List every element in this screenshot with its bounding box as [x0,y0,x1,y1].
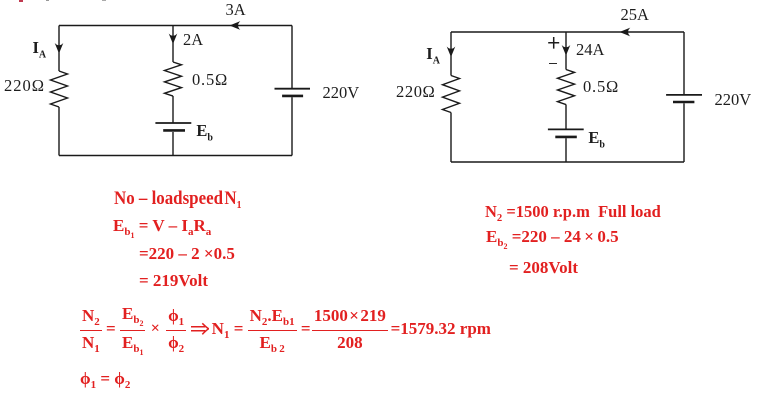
red text: Eb1 = V - IaRa [113,217,211,236]
fraction phi1/phi2 [166,307,186,351]
label 2A left circuit [183,32,203,49]
red text: No-load speed N1 [114,189,242,208]
resistor 220ohm left circuit [51,71,68,107]
wire: left circuit right branch upper [291,26,293,89]
wire: left circuit right branch lower [291,97,293,155]
arrow: IA current right circuit left branch [447,47,456,58]
arrow: 24A current right circuit middle branch [562,45,571,56]
wire: right circuit top [451,31,684,33]
wire: left circuit middle branch to battery [172,96,174,123]
label 3A [226,2,246,19]
red text: = 219 Volt [139,272,208,289]
label Eb right circuit [588,130,605,147]
wire: left circuit left branch upper [58,26,60,72]
wire: left circuit middle branch upper [172,26,174,63]
wire: right circuit middle branch below battery [565,138,567,162]
label 220ohm right circuit [396,84,435,101]
resistor 0.5ohm right circuit [558,70,575,105]
times [151,321,160,337]
label IA left circuit [33,40,47,57]
battery Eb right circuit: long plate [548,128,584,130]
wire: left circuit left branch lower [58,107,60,156]
red equation: speed ratio formula [80,305,491,353]
label 0.5ohm left circuit [192,72,228,89]
fraction Eb2/Eb1 [120,305,145,353]
fraction N2.Eb1/Eb2 [248,307,297,351]
resistor 0.5ohm left circuit [165,62,182,96]
label Eb left circuit [196,123,213,140]
arrow: 25A current right circuit top wire [620,28,631,37]
battery 220V right circuit: short thick plate [673,101,694,104]
N1 = [212,320,244,337]
wire: left circuit middle branch below battery [172,132,174,156]
battery Eb right circuit: short thick plate [555,136,577,139]
label minus sign right circuit [549,63,558,65]
resistor 220ohm right circuit [443,76,460,113]
battery 220V right circuit: long plate [666,94,702,96]
wire: left circuit bottom [59,155,292,157]
battery Eb left circuit: long plate [155,122,191,124]
label IA right circuit [426,46,440,63]
label 25A [621,7,649,24]
wire: right circuit left branch upper [450,32,452,76]
wire: right circuit middle branch upper [565,32,567,70]
label 220V right circuit [715,92,752,109]
wire: right circuit left branch lower [450,113,452,163]
result [391,320,491,337]
arrow: 2A current left circuit middle branch [169,34,178,45]
wire: right circuit right branch upper [683,32,685,95]
red text: N2 = 1500 rpm Full load [485,203,661,220]
arrow: 3A current left circuit top wire [230,21,241,30]
top edge cut-off text remnants [19,0,23,2]
label 220ohm left circuit [4,78,45,95]
red text: phi1 = phi2 [80,370,130,387]
implies arrow [191,322,209,336]
equals [301,320,311,337]
label 220V left circuit [323,85,360,102]
equals [106,320,116,337]
wire: left circuit top [59,25,292,27]
arrow: IA current left circuit left branch [55,43,64,54]
fraction 1500x219/208 [312,307,388,351]
label 24A right circuit [576,42,604,59]
wire: right circuit middle branch to battery [565,105,567,130]
label plus sign right circuit [547,36,561,51]
label 0.5ohm right circuit [583,79,619,96]
red text: Eb2 = 220 - 24 x 0.5 [486,228,619,247]
red text: = 208 Volt [509,259,578,276]
battery 220V left circuit: short thick plate [282,95,303,98]
red text: = 220 - 2 x 0.5 [139,245,235,262]
battery 220V left circuit: long plate [275,88,311,90]
fraction N2/N1 [80,307,102,351]
battery Eb left circuit: short thick plate [163,129,185,132]
wire: right circuit right branch lower [683,103,685,162]
wire: right circuit bottom [451,161,684,163]
